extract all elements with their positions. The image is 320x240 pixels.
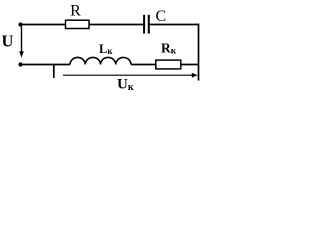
node B (bottom-left junction dot) [18,62,22,66]
wire (resistor R to capacitor C) [89,24,143,26]
capacitor C [144,15,149,34]
wire (top, node A to resistor R) [21,24,66,26]
node A (top-left junction dot) [18,22,22,26]
wire (right vertical) [198,24,200,81]
wire (coil to resistor Rk) [131,64,156,66]
arrow Uk (coil voltage, pointing right) [63,73,198,78]
resistor R [66,20,90,28]
svg-text:C: C [155,8,166,25]
arrow U (source voltage, pointing down) [19,27,24,58]
svg-text:R: R [70,2,81,19]
wire (bottom, node B to coil) [21,64,71,66]
wire (capacitor C to top-right corner) [150,24,200,26]
wire (left terminal stub of coil, junction) [53,65,55,79]
resistor Rk [156,60,181,69]
svg-text:U: U [2,31,14,50]
wire (resistor Rk to right vertical) [181,64,199,66]
inductor Lk [70,57,131,64]
